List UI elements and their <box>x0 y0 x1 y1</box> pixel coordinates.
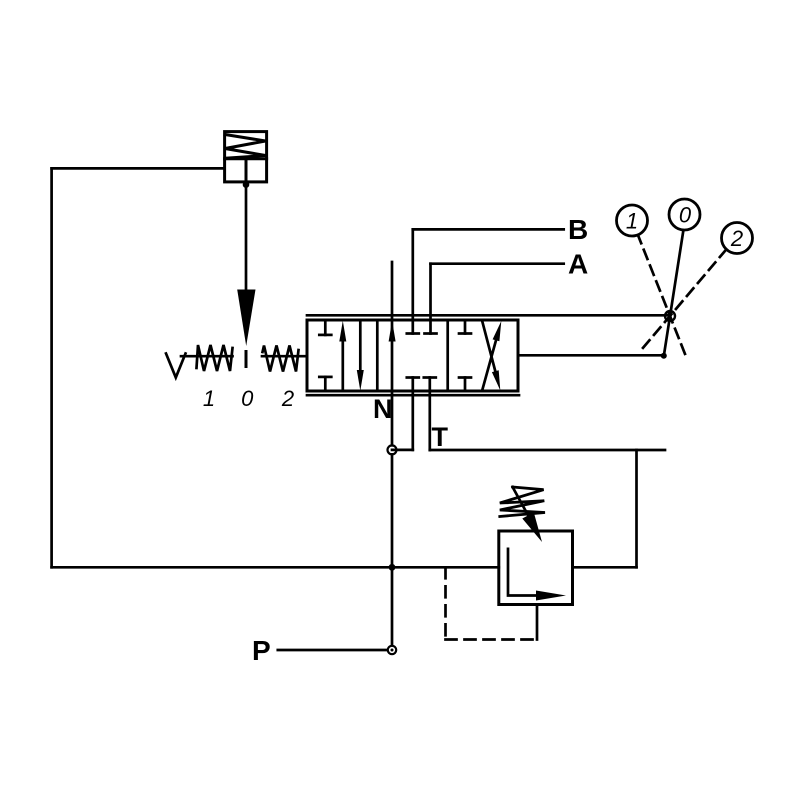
svg-text:1: 1 <box>626 209 638 234</box>
svg-text:0: 0 <box>241 386 254 411</box>
svg-text:0: 0 <box>679 203 692 228</box>
svg-text:1: 1 <box>203 386 215 411</box>
svg-text:B: B <box>568 214 588 245</box>
svg-text:2: 2 <box>730 226 743 251</box>
svg-text:N: N <box>373 394 393 424</box>
svg-text:A: A <box>568 249 588 280</box>
svg-text:P: P <box>252 635 271 666</box>
svg-text:2: 2 <box>281 386 294 411</box>
svg-text:T: T <box>432 422 449 452</box>
